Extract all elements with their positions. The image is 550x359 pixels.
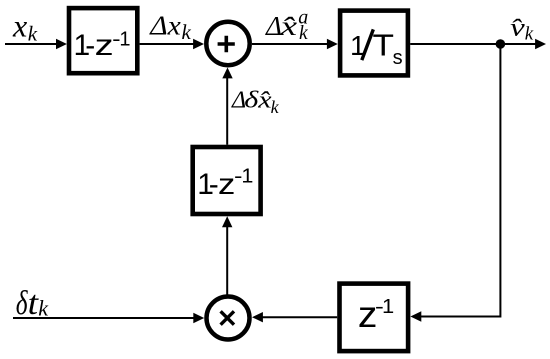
- svg-text:δx̂: δx̂: [244, 88, 272, 114]
- wire B2 to output: [410, 43, 536, 45]
- arrowhead into summer left: [193, 39, 204, 49]
- summer plus sign: [218, 36, 235, 52]
- block B2 1/Ts: [340, 11, 408, 76]
- wire input dtk: [13, 317, 194, 319]
- svg-text:Δ: Δ: [265, 11, 282, 41]
- arrowhead into block 1-z^-1 (B1): [56, 39, 67, 49]
- summer circle: [206, 22, 249, 65]
- svg-text:z: z: [218, 168, 235, 201]
- block B3 1-z^-1: [193, 147, 261, 214]
- wire multiplier up to B3: [226, 227, 228, 295]
- svg-text:v̂: v̂: [510, 13, 525, 42]
- svg-text:k: k: [299, 23, 308, 44]
- svg-text:x̂: x̂: [279, 11, 297, 41]
- arrowhead into multiplier right: [252, 312, 263, 322]
- svg-text:k: k: [525, 24, 534, 45]
- svg-text:1: 1: [241, 166, 253, 188]
- wire B4 to multiplier: [263, 316, 338, 318]
- multiplier x sign: [221, 311, 234, 324]
- svg-text:k: k: [38, 296, 49, 321]
- svg-text:Δx: Δx: [149, 11, 181, 41]
- svg-text:x: x: [12, 8, 27, 44]
- arrowhead output vk: [535, 39, 546, 49]
- wire B1 to summer: [140, 43, 194, 45]
- svg-text:1: 1: [382, 296, 394, 318]
- svg-text:s: s: [393, 47, 403, 69]
- node dot: [496, 39, 506, 49]
- arrowhead into multiplier left: [193, 313, 204, 323]
- arrowhead into summer bottom: [222, 68, 232, 79]
- block B4 z^-1: [340, 284, 409, 352]
- svg-text:T: T: [373, 28, 395, 63]
- multiplier circle: [207, 297, 250, 340]
- wire summer to block 1/Ts: [252, 43, 328, 45]
- wire B3 up to summer: [226, 78, 228, 145]
- arrowhead into block 1/Ts: [327, 39, 338, 49]
- wire feedback vertical and horizontal to z^-1: [421, 44, 500, 317]
- arrowhead into B3 bottom: [222, 216, 232, 227]
- block B1 1-z^-1: [69, 8, 137, 73]
- wire input xk: [5, 43, 57, 45]
- label B2 slash: [362, 29, 374, 60]
- svg-text:k: k: [28, 22, 38, 46]
- svg-text:k: k: [182, 20, 192, 44]
- svg-text:z: z: [95, 29, 114, 62]
- arrowhead into block z^-1 right side: [410, 311, 421, 321]
- svg-text:δ: δ: [16, 285, 29, 322]
- svg-text:k: k: [271, 97, 280, 117]
- svg-text:1: 1: [119, 28, 130, 50]
